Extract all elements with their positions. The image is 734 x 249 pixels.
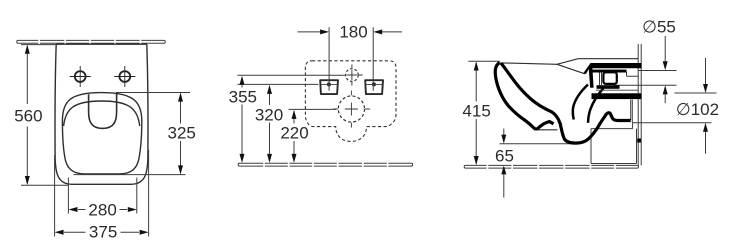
svg-text:355: 355 bbox=[229, 88, 257, 107]
svg-text:220: 220 bbox=[280, 124, 308, 143]
svg-text:560: 560 bbox=[14, 107, 42, 126]
svg-text:320: 320 bbox=[255, 105, 283, 124]
svg-text:∅55: ∅55 bbox=[642, 17, 676, 36]
svg-text:415: 415 bbox=[462, 101, 490, 120]
svg-text:180: 180 bbox=[339, 23, 367, 42]
svg-text:375: 375 bbox=[89, 222, 117, 241]
svg-text:∅102: ∅102 bbox=[676, 100, 719, 119]
svg-text:280: 280 bbox=[88, 200, 116, 219]
svg-text:65: 65 bbox=[495, 147, 514, 166]
svg-text:325: 325 bbox=[168, 124, 196, 143]
